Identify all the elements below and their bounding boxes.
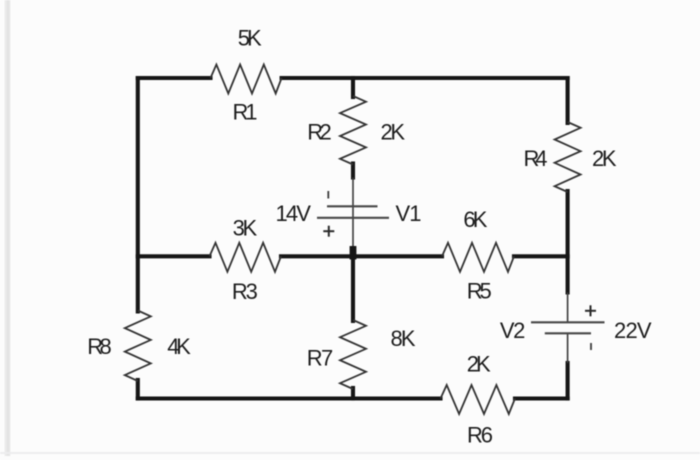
svg-text:8K: 8K xyxy=(391,326,416,351)
svg-text:5K: 5K xyxy=(238,26,262,51)
resistor R3 body xyxy=(210,243,282,272)
scan artifact: faint left vertical line xyxy=(5,0,11,456)
battery V2 plus sign xyxy=(585,305,596,316)
svg-text:R3: R3 xyxy=(232,279,258,304)
wire: top left segment xyxy=(138,76,211,80)
wire: middle horizontal left segment xyxy=(138,254,210,258)
wire: top right segment xyxy=(282,76,568,80)
wire: thin lead above battery V2 xyxy=(567,293,569,323)
resistor R8 body xyxy=(125,311,151,382)
battery V2 positive plate (long, top) xyxy=(531,321,605,323)
wire: bottom left segment xyxy=(138,396,441,400)
svg-text:2K: 2K xyxy=(592,146,617,171)
svg-text:R2: R2 xyxy=(307,119,332,144)
wire: thin lead through battery V1 xyxy=(352,178,354,257)
wire: mid vertical stub below R7 xyxy=(351,388,355,399)
wire: middle horizontal center segment xyxy=(281,254,442,258)
wire: mid vertical stub below R2 xyxy=(351,164,355,178)
svg-text:2K: 2K xyxy=(467,352,491,377)
resistor R6 body xyxy=(441,385,516,414)
battery V2 negative plate (short, bottom) xyxy=(545,332,591,334)
wire: middle horizontal right segment xyxy=(514,254,568,258)
wire: left vertical upper (top corner to R8) xyxy=(136,78,140,312)
junction node A (mid vertical x middle wire) xyxy=(350,246,357,260)
wire: mid vertical node A to R7 xyxy=(351,256,355,321)
svg-text:R5: R5 xyxy=(467,279,492,304)
resistor R1 body xyxy=(211,65,282,94)
battery V1 minus tick xyxy=(327,191,329,199)
wire: left vertical lower (R8 to bottom corner) xyxy=(136,380,140,399)
wire: right vertical upper (top corner to R4) xyxy=(566,78,570,123)
battery V2 minus tick xyxy=(590,343,592,350)
wire: right vertical lower (below V2 to bottom corner) xyxy=(566,363,570,399)
svg-text:R1: R1 xyxy=(233,100,258,125)
wire: right vertical middle (R4 to V2 gap) xyxy=(566,191,570,293)
battery V1 plus sign xyxy=(323,226,334,237)
svg-text:14V: 14V xyxy=(275,201,311,226)
battery V1 positive plate (long, bottom) xyxy=(317,217,389,219)
resistor R5 body xyxy=(442,243,514,272)
svg-text:R4: R4 xyxy=(524,146,548,171)
wire: thin lead below battery V2 xyxy=(567,333,569,363)
wire: bottom right segment xyxy=(515,396,568,400)
svg-text:3K: 3K xyxy=(233,216,258,241)
scan artifact: faint bottom horizontal line xyxy=(0,452,700,454)
svg-text:4K: 4K xyxy=(167,334,191,359)
svg-text:V1: V1 xyxy=(396,201,422,226)
svg-text:2K: 2K xyxy=(381,119,406,144)
svg-text:V2: V2 xyxy=(500,318,526,343)
resistor R7 body xyxy=(340,320,366,389)
svg-text:22V: 22V xyxy=(614,318,652,343)
svg-text:R8: R8 xyxy=(87,334,112,359)
battery V1 negative plate (short, top) xyxy=(327,205,378,207)
svg-text:6K: 6K xyxy=(463,207,487,232)
svg-text:R7: R7 xyxy=(307,346,334,371)
wire: mid vertical stub top (from top wire to R2) xyxy=(351,78,355,97)
resistor R2 body xyxy=(340,96,366,165)
resistor R4 body xyxy=(555,122,581,192)
svg-text:R6: R6 xyxy=(467,423,493,448)
